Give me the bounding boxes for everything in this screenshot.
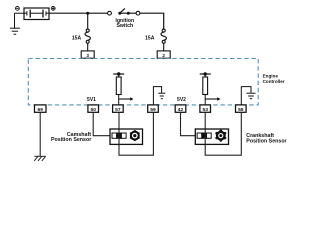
ground (battery negative)	[10, 13, 20, 34]
junction node above fuse 1	[86, 12, 89, 15]
svg-text:15A: 15A	[145, 35, 155, 41]
wire segment through camshaft sensor	[118, 129, 120, 144]
ground (inside controller, pin 59)	[153, 87, 165, 105]
svg-text:55: 55	[238, 107, 244, 113]
resistor R2 (pull-up inside controller)	[200, 72, 211, 105]
wire camshaft sensor return to pin 59	[119, 112, 153, 155]
connector pin 50	[88, 105, 99, 113]
signal arrow (camshaft signal)	[119, 97, 134, 101]
connector pin 53	[200, 105, 211, 113]
connector pin 3	[81, 51, 94, 58]
connector pin 59	[148, 105, 159, 113]
svg-text:Position Sensor: Position Sensor	[246, 138, 286, 144]
svg-text:3: 3	[86, 53, 89, 58]
svg-text:53: 53	[202, 107, 208, 113]
camshaft position sensor	[110, 129, 143, 144]
svg-text:59: 59	[150, 107, 156, 113]
wire pin 42 to crankshaft sensor supply	[181, 112, 196, 135]
svg-text:Engine: Engine	[263, 73, 279, 78]
fuse F1 15A (circuit breaker)	[85, 29, 90, 51]
svg-text:2: 2	[162, 53, 165, 58]
ignition switch S1	[108, 8, 140, 15]
wire pin 57 to camshaft sensor signal	[118, 112, 120, 144]
battery plus terminal label	[51, 6, 55, 10]
connector pin 42	[175, 105, 186, 113]
svg-text:Controller: Controller	[263, 79, 285, 84]
svg-text:5V1: 5V1	[87, 97, 96, 103]
resistor R1 (pull-up inside controller)	[113, 72, 124, 105]
engine controller boundary (dashed)	[28, 59, 258, 105]
svg-text:69: 69	[37, 107, 43, 113]
svg-text:42: 42	[178, 107, 184, 113]
wire pin 53 to crankshaft sensor signal	[204, 112, 206, 144]
ground (inside controller, pin 55)	[241, 87, 255, 105]
battery B1	[15, 8, 50, 20]
signal arrow (crankshaft signal)	[205, 97, 220, 101]
wire crankshaft sensor return to pin 55	[205, 112, 241, 155]
crankshaft position sensor	[195, 129, 228, 144]
fuse F2 15A (circuit breaker)	[161, 29, 166, 51]
svg-text:50: 50	[90, 107, 96, 113]
wire segment through crankshaft sensor	[204, 129, 206, 144]
connector pin 2	[157, 51, 170, 58]
svg-text:5V2: 5V2	[177, 97, 186, 103]
wire pin 50 to camshaft sensor supply	[93, 112, 110, 135]
wire pin 69 to chassis ground	[39, 112, 41, 156]
wire junction down to fuse 1	[87, 13, 89, 29]
svg-text:Switch: Switch	[116, 23, 133, 29]
svg-text:57: 57	[115, 107, 121, 113]
connector pin 69	[35, 105, 47, 113]
chassis ground	[34, 156, 45, 161]
svg-text:15A: 15A	[72, 35, 82, 41]
svg-text:Position Sensor: Position Sensor	[51, 137, 91, 143]
connector pin 55	[236, 105, 247, 113]
battery minus terminal label	[16, 6, 20, 10]
connector pin 57	[113, 105, 124, 113]
wire battery to junction and switch	[49, 12, 108, 14]
wire switch to fuse 2 corner	[140, 13, 164, 29]
